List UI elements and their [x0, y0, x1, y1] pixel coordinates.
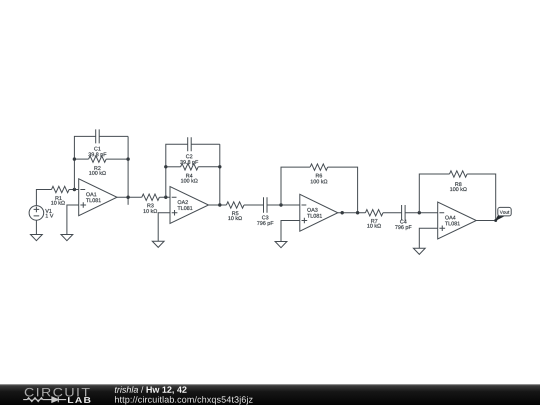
resistor R3	[142, 194, 160, 213]
node R4 left junction	[164, 165, 167, 168]
wire OA2 output to R5	[209, 204, 227, 206]
wire R2 right lead	[106, 158, 128, 160]
wire OA1 feedback right rail	[127, 136, 129, 204]
resistor R6	[310, 164, 328, 183]
wire R3 to OA2 inverting input	[159, 196, 170, 198]
capacitor C4	[395, 205, 411, 230]
CircuitLab logo text LAB	[68, 397, 91, 403]
footer url text	[115, 396, 253, 404]
node OA1 output junction	[126, 196, 129, 199]
wire OA2 feedback left rail	[166, 144, 188, 197]
wire OA4 feedback left rail	[419, 174, 449, 213]
op-amp OA3	[300, 194, 338, 231]
capacitor C3	[257, 197, 273, 226]
node OA2 output junction	[218, 203, 221, 206]
node OA2 inverting junction	[164, 196, 167, 199]
ground (OA3 +)	[275, 242, 287, 248]
node Vout junction	[494, 219, 497, 222]
capacitor C1	[88, 129, 106, 157]
ground (OA1 +)	[61, 235, 73, 241]
ground (OA2 +)	[152, 241, 164, 247]
wire OA2 plus input to ground	[158, 213, 170, 241]
wire V1 top to R1	[36, 190, 51, 206]
resistor R8	[450, 171, 468, 191]
wire OA4 feedback right rail	[467, 174, 496, 221]
node R2 right junction	[126, 157, 129, 160]
node OA3 inverting junction	[279, 203, 282, 206]
op-amp OA2	[170, 187, 209, 224]
resistor R2	[89, 156, 107, 175]
ground (OA4 +)	[413, 248, 425, 254]
resistor R1	[51, 186, 69, 204]
wire C2 to right rail	[191, 143, 220, 145]
node R2 left junction	[73, 157, 76, 160]
wire OA1 feedback left rail	[74, 136, 95, 189]
wire OA4 output	[476, 220, 495, 222]
wire C1 to right rail	[99, 135, 128, 137]
wire OA3 feedback right rail	[328, 167, 358, 213]
resistor R7	[365, 210, 383, 228]
node OA3 output pin	[341, 211, 344, 214]
wire OA1 plus input to ground	[67, 205, 79, 235]
capacitor C2	[180, 137, 198, 165]
ground (V1)	[31, 235, 43, 241]
node OA1 inverting junction	[73, 188, 76, 191]
wire R7 to C4	[383, 212, 402, 214]
CircuitLab logo resistor-diode glyph	[23, 397, 66, 402]
wire OA1 output to R3	[117, 196, 142, 198]
wire OA3 feedback left rail	[281, 167, 310, 205]
wire OA2 feedback right rail	[219, 144, 221, 205]
wire R2 left lead	[74, 158, 88, 160]
node OA4 inverting junction	[418, 211, 421, 214]
voltage source V1	[29, 206, 53, 221]
op-amp OA4	[438, 202, 477, 239]
wire R4 right lead	[198, 166, 220, 168]
node Vout flag	[495, 207, 511, 221]
CircuitLab logo text CIRCUIT	[25, 388, 90, 397]
wire C3 to OA3 inverting input	[267, 204, 300, 206]
wire R4 left lead	[166, 166, 181, 168]
footer title text	[115, 386, 187, 394]
wire OA3 plus input to ground	[281, 221, 300, 242]
wire V1 bottom to ground	[35, 220, 37, 234]
node R4 right junction	[218, 165, 221, 168]
footer bar	[0, 384, 540, 405]
wire R1 to OA1 inverting input	[69, 189, 79, 191]
resistor R4	[181, 164, 199, 183]
op-amp OA1	[79, 179, 117, 216]
wire OA4 plus input to ground	[419, 228, 437, 248]
wire OA3 output to R7	[338, 212, 366, 214]
resistor R5	[226, 202, 244, 220]
wire R5 to C3	[244, 204, 264, 206]
wire C4 to OA4 inverting input	[405, 212, 438, 214]
node OA3 feedback junction	[356, 211, 359, 214]
